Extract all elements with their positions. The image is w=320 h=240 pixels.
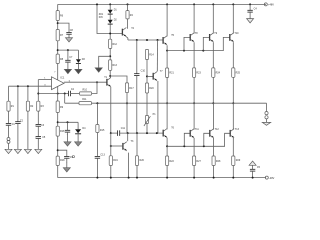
resistor R2 [26, 101, 29, 111]
wire op-amp V- pin down [57, 86, 59, 101]
node R29 rail [232, 177, 234, 179]
node 122 junction [57, 121, 59, 123]
ground input jack [5, 149, 12, 153]
ground below C7 [64, 69, 71, 73]
node C11 line start [110, 132, 112, 134]
wire T3 emitter down [128, 153, 130, 178]
wire connector to arrow [266, 119, 268, 123]
wire T8 emitter down [193, 42, 195, 68]
wire column x18 down [17, 86, 19, 122]
diode D4 [75, 129, 81, 133]
wire T6 collector down [166, 138, 168, 156]
transistor T13 [230, 129, 234, 138]
wire R9 to node 122 [57, 113, 59, 127]
resistor R27 [193, 156, 196, 166]
wire rail to T10 [232, 4, 234, 33]
svg-text:R17: R17 [129, 87, 134, 90]
svg-text:R19: R19 [113, 159, 118, 162]
ground x18 [14, 149, 21, 153]
wire D1 to D2 [109, 14, 111, 20]
resistor R24 [212, 68, 215, 77]
transistor T9 [210, 33, 214, 42]
node diode/zener/base junction [109, 33, 111, 35]
wire R29 to rail [232, 166, 234, 178]
svg-text:IC1: IC1 [60, 76, 65, 80]
node bias line R17col [127, 132, 129, 134]
svg-text:R10: R10 [83, 88, 88, 91]
wire T10 emitter down [232, 42, 234, 68]
wire T5 emitter to bus [166, 45, 168, 50]
wire P1 to bias line [146, 124, 148, 134]
svg-text:T12: T12 [215, 128, 220, 131]
resistor R17 [125, 83, 128, 93]
wire R7 to node 50 [57, 41, 59, 54]
wire T6 emitter up [166, 103, 168, 129]
wire rail to T5 collector [166, 4, 168, 36]
svg-text:R14: R14 [149, 54, 154, 57]
resistor R9 [56, 101, 59, 113]
wire D4 corner down [77, 122, 79, 129]
wire R11 riser [64, 94, 66, 104]
wire C4 to ground [249, 12, 251, 19]
resistor R3 [37, 101, 40, 111]
wire R1 to C1 [8, 111, 10, 123]
node input R2 tap [17, 85, 19, 87]
wire ground to C5 [252, 165, 254, 169]
node R19 rail [110, 177, 112, 179]
node R7/R8 junction [57, 49, 59, 51]
resistor R21 [166, 68, 169, 77]
wire C2 to ground [17, 124, 19, 150]
wire R10 riser to T1 base line [92, 82, 97, 93]
wire VAS base line y40 [128, 39, 163, 41]
resistor R23 [193, 68, 196, 77]
wire C6 stub [67, 122, 69, 130]
svg-text:R22: R22 [169, 160, 174, 163]
wire R26 to rail [136, 166, 138, 178]
node R6/R7 junction [57, 22, 59, 24]
wire R21 to output line [166, 77, 168, 103]
wire R28 to rail [213, 166, 215, 178]
node C5 rail [252, 177, 254, 179]
transistor T11 [190, 129, 194, 138]
node mid ground tap [109, 55, 111, 57]
node driver output [166, 102, 168, 104]
terminal +48V [264, 3, 267, 6]
wire R25 to output [232, 77, 234, 103]
svg-text:C10: C10 [141, 69, 146, 72]
terminal -48V [265, 176, 268, 179]
wire op-amp output to T1 base [64, 81, 107, 83]
wire C5 to ground [37, 138, 39, 149]
ground below C8 [66, 38, 73, 42]
svg-text:R12: R12 [113, 43, 118, 46]
wire branch to C12 [58, 150, 67, 156]
preset P1 [145, 116, 148, 124]
capacitor C8 [66, 32, 71, 34]
node bottom stub1 [183, 145, 185, 147]
wire branch to C7 and D3 [58, 49, 79, 51]
node feedback to R11 riser [64, 93, 66, 95]
resistor R29 [232, 156, 235, 166]
wire bottom bus [167, 133, 230, 146]
node T1 collector [109, 75, 111, 77]
svg-text:60V: 60V [99, 17, 104, 19]
svg-text:R11: R11 [82, 98, 87, 101]
wire R23 to output [193, 77, 195, 103]
svg-text:C11: C11 [121, 127, 126, 130]
wire R22 to rail [166, 166, 168, 178]
wire C3 to C5 [37, 126, 39, 136]
wire C7 to ground [67, 62, 69, 69]
node T3 emitter rail [128, 177, 130, 179]
wire driver bus top [167, 37, 230, 50]
wire R15 to C13 [96, 133, 98, 157]
capacitor C11 [118, 130, 120, 136]
wire T1 emitter column low [110, 133, 112, 156]
capacitor C3 [36, 124, 41, 126]
node rail T8 [193, 3, 195, 5]
capacitor C10 [134, 74, 139, 76]
wire pin3 corner down [37, 80, 39, 102]
resistor R4 [126, 11, 129, 19]
svg-text:R28: R28 [216, 160, 221, 163]
resistor R13 [109, 60, 112, 70]
node rail R4 [127, 3, 129, 5]
svg-text:T13: T13 [235, 128, 240, 131]
transistor T2 [122, 28, 126, 37]
capacitor C12 [64, 156, 69, 158]
resistor R18 [56, 156, 59, 165]
ground below C4 [247, 19, 254, 23]
wire ground branch [99, 56, 111, 68]
wire T3 column upper [96, 103, 98, 124]
output arrow symbol [262, 122, 270, 125]
resistor R18b [135, 156, 138, 166]
svg-text:R25: R25 [236, 72, 241, 75]
wire rail to C4 [249, 4, 251, 10]
wire C8 to ground [68, 34, 70, 38]
wire jack to ground [8, 143, 10, 149]
wire R20 to P1 [146, 93, 148, 116]
wire R17 to output line [126, 93, 128, 134]
op-amp IC1 [52, 77, 65, 90]
ground above C5 [249, 161, 256, 165]
svg-text:R16: R16 [60, 130, 65, 133]
ground below C6 [64, 142, 71, 146]
resistor R25 [232, 68, 235, 77]
node rail T9 [212, 3, 214, 5]
wire feedback line [38, 93, 68, 95]
node bus stub1 [183, 50, 185, 52]
node bias line C10col [136, 132, 138, 134]
transistor T6 [163, 129, 167, 138]
capacitor C6 [65, 130, 70, 132]
wire R12 to mid node [109, 48, 111, 60]
capacitor C2 input [15, 122, 20, 124]
node rail T5 [166, 3, 168, 5]
wire R3 to C3 [37, 111, 39, 124]
wire T7 base stub [147, 75, 153, 77]
wire D4 to ground [77, 134, 79, 142]
svg-text:T11: T11 [195, 128, 200, 131]
resistor R28 [212, 156, 215, 166]
wire bottom -V rail [58, 177, 266, 179]
resistor R15 [96, 125, 99, 133]
node input R3 tap [27, 85, 29, 87]
wire input corner down R1 [8, 86, 10, 101]
node feedback tap [37, 93, 39, 95]
wire R4 to T2 collector [127, 19, 129, 29]
wire D3 stub [77, 50, 79, 59]
wire zener branch column [97, 4, 122, 33]
resistor R17b [109, 156, 112, 166]
node R28 rail [213, 177, 215, 179]
transistor T8 [190, 33, 194, 42]
node C7 tap [67, 49, 69, 51]
wire rail to T9 [212, 4, 214, 33]
svg-text:R27: R27 [196, 160, 201, 163]
node T8 output [193, 102, 195, 104]
wire T1 collector diag join [109, 77, 111, 78]
capacitor C13 [95, 156, 100, 158]
wire R16 to node 150 [57, 136, 59, 156]
resistor R7 [56, 30, 59, 41]
node R27 rail [193, 177, 195, 179]
capacitor C2 feedback [68, 91, 70, 97]
diode D1 [108, 10, 113, 14]
wire T11 emitter up [193, 103, 195, 129]
diode D3 [76, 59, 81, 63]
wire D2 to base node [109, 24, 111, 39]
capacitor C5 rail [250, 169, 255, 171]
ground below D4 [75, 142, 82, 146]
wire R8 to op-amp V+ pin [57, 64, 59, 81]
wire R18 to bottom rail [57, 166, 59, 178]
capacitor C7 [65, 60, 70, 62]
wire T3 collector riser [127, 133, 129, 141]
svg-text:+48V: +48V [268, 4, 274, 7]
node T7 collector top [157, 39, 159, 41]
wire C10col to R18b [136, 133, 138, 156]
transistor T1 [107, 78, 111, 87]
transistor T7 [153, 72, 157, 81]
wire T13 emitter up [232, 103, 234, 129]
resistor R1 [7, 101, 10, 111]
wire C6 to ground [67, 132, 69, 142]
wire T12 emitter up [213, 103, 215, 129]
node bias line P1 [146, 132, 148, 134]
wire R6 to node [57, 21, 59, 30]
wire inverting input line [9, 85, 52, 87]
svg-text:R18: R18 [60, 159, 65, 162]
output connector circles [265, 112, 268, 115]
node T3 base tap [110, 145, 112, 147]
node bus stub2 [202, 50, 204, 52]
capacitor C4 [247, 10, 252, 12]
node T7 base [146, 75, 148, 77]
wire T7 emitter down [157, 81, 159, 133]
transistor T5 [163, 36, 167, 45]
wire T1 emitter down [110, 87, 112, 133]
wire R13 to T1 collector node [109, 70, 111, 76]
wire C11 to T6 base [120, 132, 164, 134]
ground x28 [24, 149, 31, 153]
capacitor C1 [6, 123, 11, 125]
ground below C12 [63, 168, 70, 172]
svg-text:R24: R24 [216, 72, 221, 75]
resistor R20 [145, 83, 148, 93]
node bus left [166, 50, 168, 52]
wire C7 stub [67, 50, 69, 60]
wire T2 emitter to VAS line [126, 37, 128, 40]
wire C12 to ground [66, 158, 68, 168]
node rail C4 [249, 3, 251, 5]
wire T1 emitter to C11 [111, 132, 118, 134]
resistor R6 [56, 11, 59, 21]
wire T9 emitter down [212, 42, 214, 68]
svg-text:C13: C13 [100, 154, 105, 157]
svg-text:R26: R26 [140, 159, 145, 162]
node output line join [96, 81, 98, 83]
svg-text:R20: R20 [149, 87, 154, 90]
wire R2 to ground [27, 111, 29, 149]
node 150 junction [57, 149, 59, 151]
wire output terminal drop [266, 103, 268, 111]
node R17 output line [126, 102, 128, 104]
wire rail to D1 [109, 4, 111, 9]
wire T3 base stub [111, 145, 123, 147]
wire top +V rail [58, 3, 266, 5]
ground below D3 [75, 69, 82, 73]
svg-text:R23: R23 [196, 72, 201, 75]
svg-text:R15: R15 [100, 129, 105, 132]
wire left column drop from rail [57, 4, 59, 10]
wire bottom stub1 [184, 133, 190, 146]
node T9 output [212, 102, 214, 104]
wire branch to C8 [58, 23, 69, 32]
resistor R11 [79, 102, 92, 105]
wire D3 to ground [77, 64, 79, 70]
svg-text:-48V: -48V [269, 177, 275, 180]
node bottom bus left [166, 145, 168, 147]
node rail T10 [232, 3, 234, 5]
resistor R13c [145, 50, 148, 60]
svg-text:R29: R29 [236, 159, 241, 162]
wire branch y122 [58, 121, 78, 123]
node R26 rail [136, 177, 138, 179]
node C13 rail [96, 177, 98, 179]
wire non-inverting input [38, 79, 51, 81]
wire column x28 down [27, 86, 29, 101]
resistor R8 [56, 54, 59, 63]
svg-text:T10: T10 [234, 32, 239, 35]
wire T7 collector up [156, 40, 158, 71]
svg-text:R13: R13 [113, 64, 118, 67]
transistor T12 [210, 129, 214, 138]
wire rail to T8 [193, 4, 195, 33]
wire R21 top [166, 51, 168, 68]
wire C10 column lower [136, 76, 138, 134]
wire C5 to rail [252, 171, 254, 178]
capacitor C5 [36, 137, 41, 139]
svg-text:ZD1: ZD1 [99, 14, 104, 16]
wire T13 collector down [232, 138, 234, 156]
resistor R10 [80, 92, 92, 95]
input jack circles [7, 138, 10, 141]
wire C1 to input jack [8, 125, 10, 137]
node C10 top [136, 39, 138, 41]
transistor T3 [123, 142, 127, 151]
wire bottom stub2 [204, 133, 210, 146]
node R22 rail [166, 177, 168, 179]
transistor T10 [230, 33, 234, 42]
ground x38 [35, 149, 42, 153]
node feedback at R9 column [57, 93, 59, 95]
node R13c top [146, 39, 148, 41]
resistor R16 [56, 126, 59, 136]
wire T1 collector node to R17 [110, 76, 127, 83]
wire output line [65, 102, 267, 104]
wire C2 to R10 [71, 93, 80, 95]
wire stub2 up [203, 37, 209, 50]
wire R27 to rail [193, 166, 195, 178]
wire T12 collector down [213, 138, 215, 156]
ground x98 [95, 68, 102, 72]
wire R24 to output [212, 77, 214, 103]
node bottom stub2 [203, 145, 205, 147]
wire C10 column upper [136, 40, 138, 74]
resistor R22 [166, 156, 169, 166]
wire C13 to rail [96, 158, 98, 177]
wire R19 to rail [110, 166, 112, 178]
wire T11 collector down [193, 138, 195, 156]
svg-text:R21: R21 [169, 72, 174, 75]
wire stub1 up [184, 37, 190, 50]
node T3 riser output line [96, 102, 98, 104]
wire R14 to T7 base node [146, 60, 148, 84]
resistor R12 [109, 39, 112, 48]
node bias line T7emitter [156, 132, 158, 134]
node C6 tap [67, 121, 69, 123]
node top rail diode column [109, 3, 111, 5]
wire rail to R4 [127, 4, 129, 10]
node zener rail [96, 3, 98, 5]
node T10 output [232, 102, 234, 104]
diode D2 [108, 20, 113, 24]
